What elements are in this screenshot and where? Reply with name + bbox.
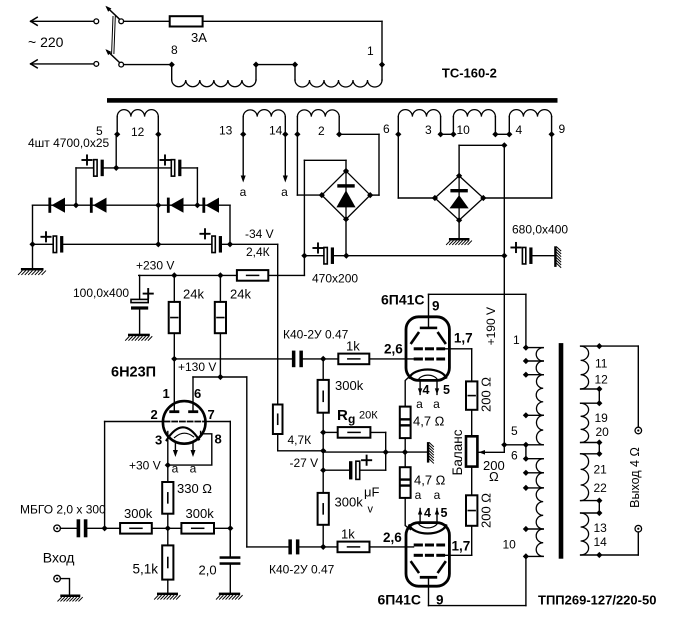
svg-text:10: 10 xyxy=(503,538,517,552)
svg-text:1,7: 1,7 xyxy=(454,331,473,346)
svg-text:5: 5 xyxy=(441,506,448,520)
svg-text:-27 V: -27 V xyxy=(290,456,319,470)
svg-text:5,1k: 5,1k xyxy=(133,562,159,577)
svg-text:12: 12 xyxy=(595,373,609,387)
svg-text:1k: 1k xyxy=(341,527,355,542)
svg-text:200 Ω: 200 Ω xyxy=(479,377,494,412)
svg-text:4шт 4700,0х25: 4шт 4700,0х25 xyxy=(28,136,110,150)
svg-text:14: 14 xyxy=(594,535,608,549)
svg-text:4: 4 xyxy=(424,506,431,520)
svg-text:2: 2 xyxy=(151,407,158,422)
svg-text:2,6: 2,6 xyxy=(383,530,402,545)
svg-text:μF: μF xyxy=(364,485,379,500)
svg-text:1,7: 1,7 xyxy=(452,539,471,554)
svg-text:4: 4 xyxy=(423,383,430,397)
svg-text:а: а xyxy=(416,397,423,411)
svg-text:3: 3 xyxy=(155,433,162,448)
svg-text:К40-2У 0.47: К40-2У 0.47 xyxy=(269,563,335,577)
svg-text:7: 7 xyxy=(208,407,215,422)
svg-text:14: 14 xyxy=(269,124,283,138)
svg-text:6: 6 xyxy=(194,386,201,401)
svg-text:а: а xyxy=(434,488,441,502)
svg-text:+230 V: +230 V xyxy=(136,259,174,273)
svg-text:1: 1 xyxy=(367,44,374,58)
svg-text:24k: 24k xyxy=(183,287,204,302)
svg-text:-34 V: -34 V xyxy=(245,227,274,241)
svg-text:13: 13 xyxy=(594,521,608,535)
svg-text:3А: 3А xyxy=(191,30,207,45)
svg-text:К40-2У 0.47: К40-2У 0.47 xyxy=(283,328,349,342)
svg-text:~ 220: ~ 220 xyxy=(28,34,64,50)
svg-text:680,0х400: 680,0х400 xyxy=(512,223,568,237)
svg-text:6: 6 xyxy=(511,449,518,463)
svg-text:6П41С: 6П41С xyxy=(381,292,425,308)
svg-text:+130 V: +130 V xyxy=(178,360,216,374)
svg-text:МБГО 2,0 х 300: МБГО 2,0 х 300 xyxy=(20,503,106,517)
svg-text:300k: 300k xyxy=(124,506,153,521)
svg-text:300k: 300k xyxy=(186,506,215,521)
svg-text:1: 1 xyxy=(513,333,520,347)
svg-text:а: а xyxy=(281,185,288,199)
svg-text:а: а xyxy=(240,185,247,199)
svg-text:9: 9 xyxy=(432,299,440,314)
svg-text:2,6: 2,6 xyxy=(384,342,403,357)
svg-text:6Н23П: 6Н23П xyxy=(111,365,156,381)
svg-text:2,4К: 2,4К xyxy=(246,245,270,259)
svg-text:ТПП269-127/220-50: ТПП269-127/220-50 xyxy=(538,593,656,608)
svg-text:8: 8 xyxy=(215,432,222,447)
svg-text:+190 V: +190 V xyxy=(484,307,498,345)
svg-text:1: 1 xyxy=(163,386,170,401)
svg-text:330 Ω: 330 Ω xyxy=(177,481,212,496)
svg-text:4,7 Ω: 4,7 Ω xyxy=(413,414,445,429)
svg-text:100,0х400: 100,0х400 xyxy=(73,286,129,300)
svg-text:v: v xyxy=(368,504,374,516)
svg-text:Вход: Вход xyxy=(43,550,75,566)
svg-text:8: 8 xyxy=(171,43,178,57)
svg-text:5: 5 xyxy=(511,424,518,438)
svg-text:4,7К: 4,7К xyxy=(288,433,312,447)
svg-text:13: 13 xyxy=(219,124,233,138)
svg-text:а: а xyxy=(172,462,179,476)
svg-text:470х200: 470х200 xyxy=(312,272,358,286)
svg-text:300k: 300k xyxy=(335,495,364,510)
svg-text:200 Ω: 200 Ω xyxy=(479,493,494,528)
svg-text:4: 4 xyxy=(516,123,523,137)
svg-text:300k: 300k xyxy=(335,378,364,393)
svg-text:2: 2 xyxy=(318,124,325,138)
svg-text:а: а xyxy=(415,488,422,502)
svg-text:а: а xyxy=(190,462,197,476)
svg-text:12: 12 xyxy=(131,125,145,139)
svg-text:Баланс: Баланс xyxy=(450,429,465,475)
svg-text:9: 9 xyxy=(559,122,566,136)
svg-text:22: 22 xyxy=(594,481,608,495)
svg-text:ТС-160-2: ТС-160-2 xyxy=(442,66,497,81)
svg-text:R: R xyxy=(337,407,348,424)
svg-text:Ω: Ω xyxy=(489,469,499,484)
svg-text:3: 3 xyxy=(425,123,432,137)
svg-text:11: 11 xyxy=(595,357,608,371)
svg-text:Выход 4 Ω: Выход 4 Ω xyxy=(628,447,642,508)
svg-text:4,7 Ω: 4,7 Ω xyxy=(414,473,446,488)
svg-text:19: 19 xyxy=(595,411,609,425)
svg-text:5: 5 xyxy=(443,383,450,397)
svg-text:24k: 24k xyxy=(230,287,251,302)
svg-text:+30 V: +30 V xyxy=(129,459,161,473)
svg-text:6: 6 xyxy=(383,122,390,136)
svg-text:20К: 20К xyxy=(359,410,378,422)
svg-text:g: g xyxy=(348,412,355,426)
svg-text:а: а xyxy=(433,397,440,411)
svg-text:20: 20 xyxy=(596,425,610,439)
svg-text:6П41С: 6П41С xyxy=(378,592,422,608)
svg-text:10: 10 xyxy=(457,123,471,137)
svg-text:1k: 1k xyxy=(346,339,360,354)
svg-text:21: 21 xyxy=(594,463,608,477)
svg-text:2,0: 2,0 xyxy=(199,563,217,578)
